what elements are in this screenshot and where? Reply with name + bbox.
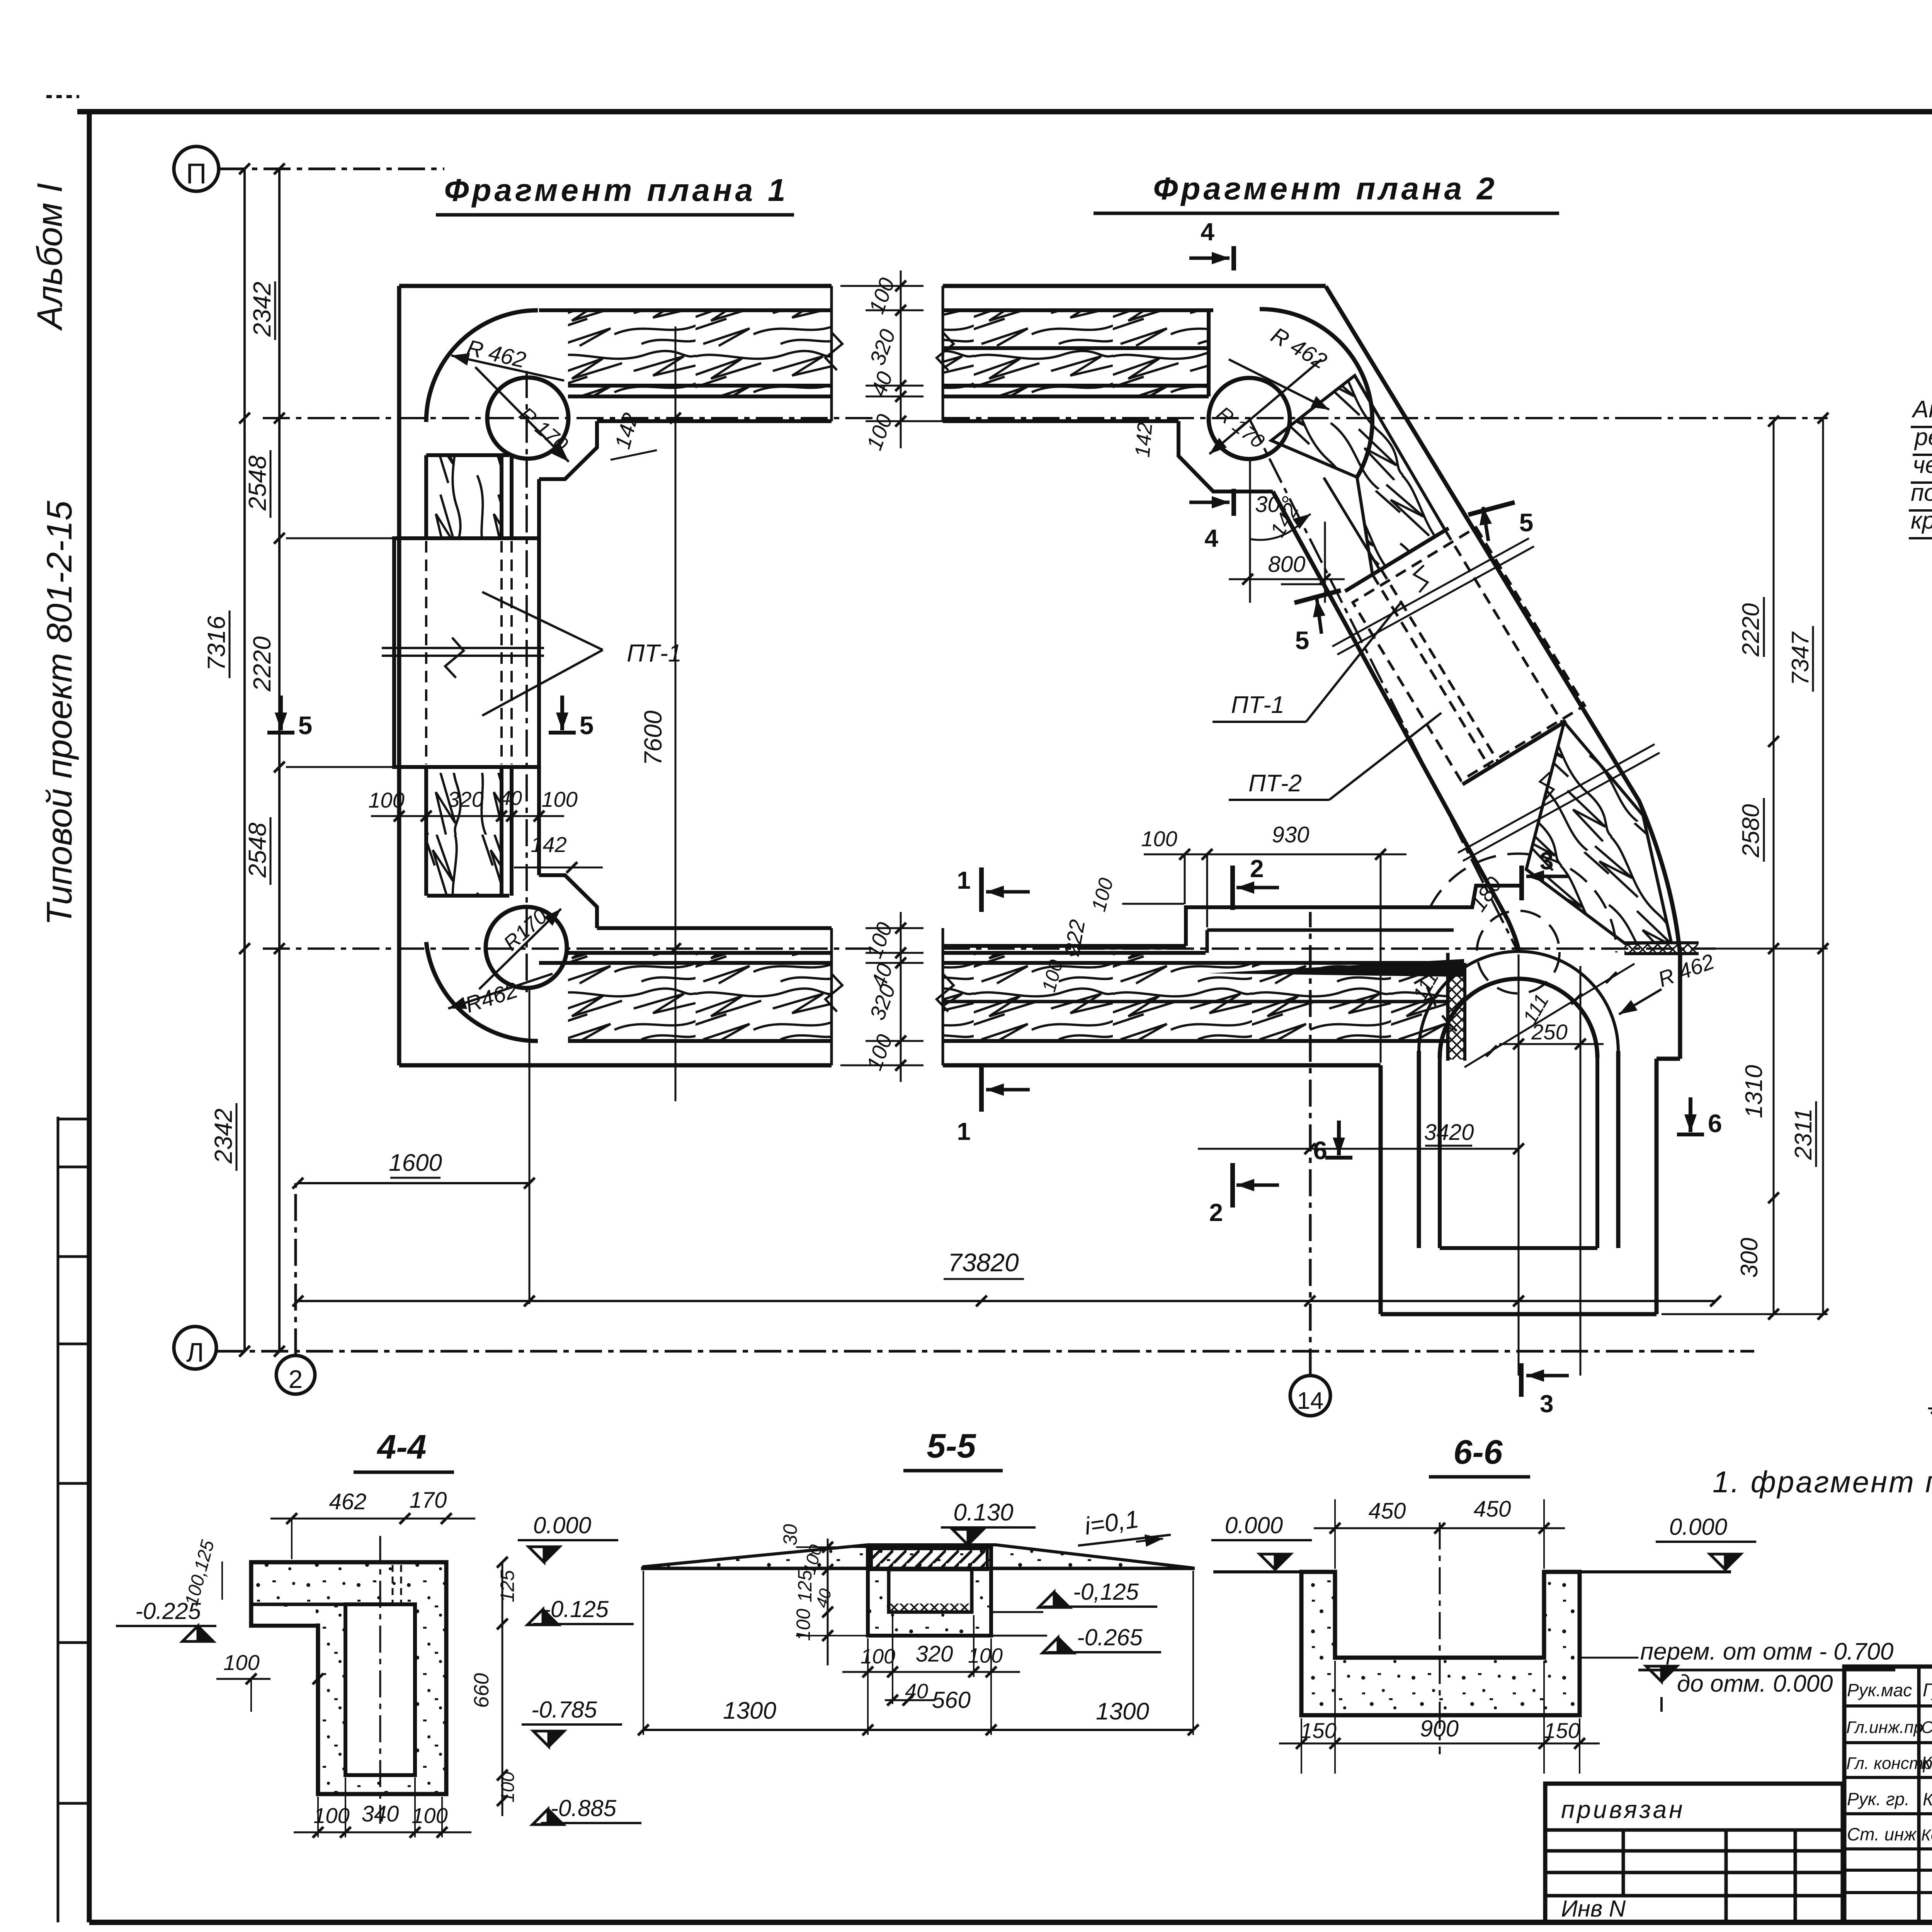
fragment1 left channel inner wall line lower bbox=[537, 767, 541, 875]
svg-text:800: 800 bbox=[1268, 552, 1306, 577]
svg-text:462: 462 bbox=[329, 1489, 367, 1514]
fragment1 bottom channel end closure bbox=[830, 928, 833, 1065]
svg-text:150: 150 bbox=[1544, 1718, 1580, 1743]
svg-text:2342: 2342 bbox=[209, 1109, 237, 1164]
svg-text:5: 5 bbox=[1519, 508, 1534, 537]
fragment2 bottom channel hatch band bbox=[943, 964, 1448, 1040]
svg-text:ревянные пробки 60х100: ревянные пробки 60х100 bbox=[1914, 424, 1932, 451]
extension line 800 right bbox=[1324, 522, 1326, 603]
svg-text:0.000: 0.000 bbox=[1669, 1514, 1727, 1540]
svg-text:100: 100 bbox=[223, 1650, 259, 1675]
fragment1 left channel inner wall line upper bbox=[537, 479, 541, 538]
svg-text:Гущин В.Н.: Гущин В.Н. bbox=[1923, 1680, 1932, 1701]
fragment2 top corner circle R170 bbox=[1209, 378, 1290, 459]
junction arch left inner leg bbox=[1438, 1058, 1442, 1248]
svg-text:125: 125 bbox=[794, 1570, 816, 1602]
fragment1 left channel centerline bbox=[526, 371, 528, 993]
right extension bottom bbox=[1662, 1313, 1828, 1315]
fragment1 left dim chain line outer bbox=[243, 169, 246, 1351]
svg-text:7316: 7316 bbox=[202, 616, 230, 671]
axis L line bbox=[216, 1350, 1754, 1353]
axis 14 line bbox=[1309, 912, 1312, 1376]
svg-text:привязан: привязан bbox=[1561, 1796, 1685, 1823]
svg-text:1300: 1300 bbox=[723, 1697, 776, 1724]
svg-text:1. фрагмент плана 1 и 2 зам: 1. фрагмент плана 1 и 2 замаркированы на… bbox=[1713, 1465, 1932, 1499]
section mark 1 lower bbox=[979, 1067, 984, 1112]
fragment1 bottom channel hatch band bbox=[568, 964, 832, 1040]
fragment2 diagonal channel outer edge bbox=[1326, 286, 1680, 1059]
svg-text:Корнеев С.Н: Корнеев С.Н bbox=[1921, 1753, 1932, 1773]
svg-text:150: 150 bbox=[1300, 1718, 1336, 1743]
fragment1 bottom channel break zigzag bbox=[825, 974, 842, 1012]
section mark 5 f2 right bbox=[1468, 502, 1515, 515]
section mark 2 upper bbox=[1230, 866, 1235, 910]
section mark 3 lower bbox=[1519, 1363, 1524, 1397]
svg-text:100: 100 bbox=[1141, 827, 1177, 851]
dim 73820 bbox=[298, 1300, 1716, 1302]
fragment1 bottom channel board strip bbox=[568, 951, 832, 955]
junction outer boundary right step bbox=[1656, 1057, 1680, 1061]
section 4-4 top dims bbox=[270, 1518, 475, 1520]
extension line corner center vertical bbox=[529, 989, 531, 1304]
axis marker L circle bbox=[174, 1327, 216, 1369]
svg-text:170: 170 bbox=[410, 1488, 447, 1513]
svg-text:0.000: 0.000 bbox=[1225, 1512, 1283, 1538]
svg-text:100: 100 bbox=[368, 788, 404, 812]
fragment1 top channel inner wall line bbox=[597, 419, 832, 423]
section mark 2 lower bbox=[1230, 1163, 1235, 1207]
section 5-5 extension lines bbox=[867, 1638, 869, 1735]
svg-text:Типовой проект 801-2-15: Типовой проект 801-2-15 bbox=[40, 500, 79, 925]
svg-text:Антисептированные де-: Антисептированные де- bbox=[1911, 396, 1932, 423]
section 4-4 board dashed bbox=[392, 1565, 394, 1603]
svg-text:по всей длине канала для: по всей длине канала для bbox=[1911, 480, 1932, 506]
svg-text:Л: Л bbox=[186, 1337, 204, 1367]
svg-text:Стуканова З.Г.: Стуканова З.Г. bbox=[1921, 1718, 1932, 1737]
svg-text:100: 100 bbox=[541, 787, 577, 811]
fragment1 top corner R170 dimension arrow bbox=[475, 367, 569, 462]
svg-text:660: 660 bbox=[470, 1673, 493, 1708]
section 4-4 body bbox=[251, 1562, 446, 1794]
svg-text:Гл. констр: Гл. констр bbox=[1846, 1754, 1932, 1773]
fragment2 bottom channel inner step second line bbox=[1207, 929, 1454, 932]
junction arch right outer leg bbox=[1616, 1051, 1621, 1248]
fragment1 extension line PT1 bottom bbox=[286, 766, 394, 768]
junction arch bottom inner line bbox=[1440, 1246, 1597, 1250]
svg-text:142: 142 bbox=[531, 832, 566, 857]
svg-text:через 1000мм заложить: через 1000мм заложить bbox=[1913, 452, 1932, 478]
right chain A line bbox=[1773, 421, 1775, 1314]
fragment2 diagonal plate edge line lower bbox=[1463, 721, 1566, 784]
fragment1 top channel outer wall line bbox=[399, 284, 832, 288]
fragment1 PT-1 slab dashed lines bbox=[425, 541, 427, 764]
section mark 4 lower bbox=[1231, 489, 1236, 516]
drawing frame top border bbox=[77, 109, 1932, 114]
section mark 1 upper bbox=[979, 867, 984, 912]
fragment1 top corner R462 dimension arrow bbox=[451, 355, 564, 381]
svg-text:100: 100 bbox=[313, 1803, 349, 1828]
svg-text:6: 6 bbox=[1708, 1109, 1722, 1138]
svg-text:ПТ-1: ПТ-1 bbox=[1231, 692, 1284, 718]
right chain B line bbox=[1822, 418, 1824, 1314]
fragment2 diagonal break pair upper bbox=[1332, 538, 1529, 646]
svg-text:450: 450 bbox=[1474, 1497, 1511, 1522]
fragment1 left dim chain line inner bbox=[278, 169, 281, 1351]
svg-text:250: 250 bbox=[1531, 1020, 1567, 1044]
svg-text:Альбом I: Альбом I bbox=[30, 183, 70, 331]
fragment1 left outer wall line bbox=[397, 286, 401, 1065]
privyazan table column lines bbox=[1622, 1830, 1625, 1896]
svg-text:14: 14 bbox=[1297, 1388, 1324, 1414]
svg-text:-0.785: -0.785 bbox=[531, 1697, 597, 1723]
fragment1 bottom channel centerline bbox=[263, 947, 875, 950]
fragment2 top channel hatch band bbox=[943, 311, 1209, 386]
section 4-4 cavity bbox=[345, 1604, 415, 1775]
fragment2 top channel outer wall line bbox=[943, 284, 1326, 288]
extension line 250 right bbox=[1580, 966, 1582, 1376]
svg-text:142: 142 bbox=[1131, 422, 1157, 458]
right extension top centerline bbox=[1634, 417, 1828, 419]
junction perpendicular dim line 111 bbox=[1464, 964, 1634, 1067]
fragment1 left channel upper hatch bbox=[427, 456, 502, 537]
svg-text:0.130: 0.130 bbox=[953, 1499, 1013, 1526]
fragment2 top channel inner wall line bbox=[943, 419, 1179, 423]
fragment2 diagonal inner edge curve to arch bbox=[1508, 920, 1519, 951]
svg-text:6-6: 6-6 bbox=[1453, 1433, 1503, 1471]
fragment1 PT-1 leader bbox=[482, 592, 603, 650]
left stamp column line bbox=[57, 1117, 60, 1922]
svg-text:-0,125: -0,125 bbox=[1073, 1579, 1139, 1605]
svg-text:2548: 2548 bbox=[243, 822, 271, 878]
fragment1 bottom channel inner wall line bbox=[597, 926, 832, 930]
fragment2 bottom channel centerline bbox=[943, 947, 1422, 950]
section mark 3 upper bbox=[1519, 866, 1524, 900]
fragment1 bottom left corner circle R170 bbox=[486, 907, 567, 988]
svg-text:7600: 7600 bbox=[639, 710, 667, 765]
fragment1 chain ticks inner bbox=[274, 533, 285, 544]
svg-text:крепления облицов. досок: крепления облицов. досок bbox=[1911, 507, 1932, 534]
svg-text:2342: 2342 bbox=[248, 282, 276, 337]
svg-text:7347: 7347 bbox=[1787, 631, 1814, 685]
fragment2 top channel centerline bbox=[943, 417, 1634, 419]
privyazan table header row line bbox=[1545, 1828, 1843, 1832]
section mark 5 right bbox=[560, 696, 564, 730]
fragment2 bottom channel end crosshatch strip bbox=[1448, 963, 1465, 1060]
section mark 4 upper bbox=[1231, 246, 1236, 270]
fragment2 diagonal dashed wall lines bbox=[1445, 530, 1564, 725]
svg-text:30: 30 bbox=[779, 1524, 801, 1546]
svg-text:5: 5 bbox=[580, 711, 594, 740]
fragment1 bottom corner R462 dimension arrow bbox=[448, 974, 553, 1009]
svg-text:Фрагмент плана 2: Фрагмент плана 2 bbox=[1153, 171, 1497, 206]
svg-text:до отм. 0.000: до отм. 0.000 bbox=[1677, 1670, 1833, 1697]
signature table row lines bbox=[1844, 1704, 1932, 1708]
fragment2 diagonal channel centerline bbox=[1249, 418, 1518, 952]
junction arch right inner leg bbox=[1595, 1058, 1599, 1248]
fragment1 top channel centerline bbox=[263, 417, 875, 419]
extension line arch center vertical bbox=[1518, 954, 1520, 1376]
fragment1 top corner step bbox=[539, 421, 597, 479]
section 5-5 floor strip bbox=[889, 1604, 971, 1612]
svg-text:1: 1 bbox=[957, 866, 971, 894]
label R462 junction bbox=[1619, 989, 1662, 1014]
drawing frame left border bbox=[87, 112, 92, 1922]
fragment1 left channel dim line bbox=[371, 815, 564, 817]
section 5-5 bottom dims bbox=[842, 1671, 1020, 1673]
svg-text:4: 4 bbox=[1204, 524, 1218, 552]
svg-text:560: 560 bbox=[932, 1687, 971, 1713]
svg-text:4: 4 bbox=[1201, 218, 1214, 246]
fragment2 bottom channel break zigzag bbox=[937, 974, 954, 1012]
dim 1600 bbox=[298, 1182, 529, 1184]
junction dashed circle small bbox=[1477, 911, 1560, 993]
svg-text:340: 340 bbox=[362, 1801, 399, 1827]
svg-text:П: П bbox=[186, 158, 206, 190]
svg-text:2220: 2220 bbox=[248, 636, 276, 692]
axis P line bbox=[219, 168, 444, 170]
svg-text:320: 320 bbox=[447, 787, 483, 811]
section 5-5 cavity bbox=[889, 1570, 972, 1612]
svg-text:1310: 1310 bbox=[1741, 1065, 1767, 1118]
svg-text:Рук.мас: Рук.мас bbox=[1847, 1680, 1912, 1700]
section 4-4 bottom dims bbox=[294, 1832, 471, 1833]
fragment2 diagonal board line A bbox=[1324, 478, 1380, 570]
svg-text:Костромин А.П: Костромин А.П bbox=[1921, 1826, 1932, 1844]
svg-text:900: 900 bbox=[1420, 1716, 1459, 1742]
fragment1 left channel lower hatch bbox=[427, 773, 502, 894]
axis 2 line bbox=[294, 1183, 297, 1355]
fragment1 bottom channel outer wall line bbox=[399, 1063, 832, 1068]
section 3-3 bottom dims bbox=[1928, 1408, 1932, 1410]
section 4-4 centerline bbox=[379, 1536, 381, 1824]
svg-text:2: 2 bbox=[1250, 855, 1264, 883]
fragment1 top left inner corner arc R462 bbox=[426, 310, 538, 422]
privyazan table row lines bbox=[1545, 1849, 1843, 1853]
privyazan table outer box bbox=[1545, 1784, 1843, 1922]
junction arch inner arc bbox=[1440, 979, 1597, 1058]
signature table column lines bbox=[1917, 1667, 1921, 1922]
fragment2 bottom channel black wedge bbox=[1208, 959, 1464, 977]
junction outer boundary left vertical bbox=[1379, 1065, 1383, 1314]
fragment2 bottom channel board strip bbox=[943, 951, 1206, 955]
svg-text:1600: 1600 bbox=[389, 1150, 442, 1176]
section 6-6 ground lines bbox=[1213, 1570, 1301, 1573]
svg-text:125: 125 bbox=[497, 1570, 518, 1602]
svg-text:5: 5 bbox=[1295, 626, 1310, 655]
svg-text:2548: 2548 bbox=[243, 455, 271, 511]
fragment2 top channel start closure bbox=[942, 286, 944, 421]
fragment1 top channel board strip bbox=[568, 395, 832, 398]
svg-text:40: 40 bbox=[905, 1680, 928, 1703]
svg-text:ПТ-2: ПТ-2 bbox=[1248, 770, 1302, 797]
bottom middle dim chain line bbox=[900, 912, 902, 1082]
junction dashed circle large bbox=[1430, 854, 1616, 952]
junction outer boundary bottom bbox=[1381, 1312, 1656, 1316]
fragment2 top corner arc R462 bbox=[1260, 309, 1372, 477]
svg-text:Инв N: Инв N bbox=[1561, 1896, 1626, 1922]
svg-text:Костина И.С: Костина И.С bbox=[1923, 1789, 1932, 1809]
svg-text:5-5: 5-5 bbox=[927, 1427, 976, 1465]
left stamp column ticks bbox=[58, 1118, 89, 1121]
binding marks top left bbox=[46, 95, 79, 98]
fragment2 diagonal PT-2 plate dashed outline bbox=[1353, 527, 1585, 781]
extension line circle center f2 bbox=[1249, 460, 1251, 603]
fragment2 diagonal hatch segment A bbox=[1271, 376, 1445, 575]
fragment1 top channel hatch band bbox=[568, 311, 832, 386]
drawing frame bottom border bbox=[89, 1920, 1932, 1925]
fragment1 PT-1 slab break lines bbox=[382, 647, 544, 649]
svg-text:2311: 2311 bbox=[1790, 1108, 1817, 1160]
svg-text:73820: 73820 bbox=[948, 1248, 1019, 1277]
svg-text:300: 300 bbox=[1736, 1238, 1763, 1277]
svg-text:1: 1 bbox=[957, 1117, 971, 1145]
fragment1 top channel end closure bbox=[830, 286, 833, 421]
fragment2 top corner R170 arrow bbox=[1209, 359, 1321, 454]
fragment2 top corner R462 arrow bbox=[1229, 359, 1329, 410]
svg-text:2220: 2220 bbox=[1738, 603, 1764, 657]
svg-text:Фрагмент плана 1: Фрагмент плана 1 bbox=[444, 173, 788, 208]
fragment2 diagonal hatch segment B bbox=[1526, 722, 1671, 944]
junction outer boundary right vertical bbox=[1655, 1059, 1659, 1314]
dim 7600 line bbox=[675, 327, 677, 1101]
fragment1 extension line PT1 top bbox=[286, 537, 394, 539]
fragment1 bottom left inner corner arc R462 bbox=[426, 942, 538, 1041]
svg-text:40: 40 bbox=[500, 787, 522, 810]
section 6-6 trough body bbox=[1301, 1572, 1580, 1715]
fragment1 bottom corner R170 dimension arrow bbox=[479, 909, 561, 989]
section 6-6 bottom dims bbox=[1279, 1743, 1600, 1745]
dim 3420 bbox=[1198, 1148, 1519, 1150]
svg-text:2: 2 bbox=[289, 1365, 303, 1393]
fragment1 top channel break zigzag bbox=[825, 332, 842, 370]
svg-text:0.000: 0.000 bbox=[533, 1512, 591, 1538]
svg-text:3: 3 bbox=[1540, 1390, 1554, 1418]
fragment2 corner hatch closure bbox=[1207, 310, 1211, 396]
svg-text:3: 3 bbox=[1540, 847, 1554, 875]
svg-text:Ст. инж: Ст. инж bbox=[1847, 1824, 1917, 1844]
right extension junction centerline bbox=[1716, 948, 1828, 950]
svg-text:-0.885: -0.885 bbox=[551, 1795, 617, 1821]
svg-text:2580: 2580 bbox=[1738, 804, 1764, 858]
junction centerline horizontal bbox=[1422, 947, 1716, 950]
svg-text:320: 320 bbox=[916, 1641, 953, 1667]
section 6-6 top dims bbox=[1314, 1527, 1565, 1529]
fragment2 bottom channel inner boundary lower bbox=[943, 944, 1186, 948]
svg-text:4-4: 4-4 bbox=[376, 1428, 426, 1466]
section 5-5 channel box bbox=[868, 1547, 991, 1636]
fragment2 top channel break zigzag bbox=[937, 332, 954, 370]
extension 100 930 bbox=[1184, 854, 1186, 904]
fragment1 PT-1 slab rectangle bbox=[394, 538, 539, 767]
svg-text:Рук. гр.: Рук. гр. bbox=[1847, 1789, 1910, 1809]
section mark 5 f2 left bbox=[1294, 590, 1341, 603]
svg-text:6: 6 bbox=[1313, 1136, 1327, 1165]
svg-text:Гл.инж.пр: Гл.инж.пр bbox=[1846, 1718, 1923, 1737]
fragment2 diagonal plate edge line upper bbox=[1345, 528, 1449, 591]
top middle dim chain line bbox=[900, 270, 902, 448]
section 5-5 hatched slab bbox=[871, 1549, 987, 1570]
fragment2 diagonal break pair lower bbox=[1458, 744, 1655, 853]
junction arch left outer leg bbox=[1417, 1051, 1421, 1248]
svg-text:5: 5 bbox=[298, 711, 313, 740]
section 4-4 left notch bbox=[253, 1607, 316, 1624]
junction arch outer arc bbox=[1419, 951, 1618, 1051]
svg-text:3420: 3420 bbox=[1424, 1120, 1474, 1145]
section mark 5 left bbox=[279, 696, 283, 730]
axis marker P circle bbox=[174, 146, 219, 191]
svg-text:930: 930 bbox=[1272, 822, 1310, 847]
axis marker 2 circle bbox=[276, 1355, 315, 1394]
bottom middle dim extension lines bbox=[866, 927, 923, 929]
fragment2 top channel board strip bbox=[943, 395, 1209, 398]
section 5-5 mound bbox=[642, 1545, 1193, 1568]
signature table outer bbox=[1844, 1667, 1932, 1922]
fragment1 top left corner circle R170 bbox=[487, 378, 568, 459]
fragment2 top corner step bbox=[1179, 421, 1273, 492]
svg-text:100: 100 bbox=[861, 1645, 895, 1668]
dim 100-930 line bbox=[1144, 854, 1406, 855]
junction crosshatch strip right bbox=[1624, 944, 1698, 954]
section 6-6 centerline bbox=[1439, 1522, 1441, 1754]
fragment1 bottom corner step bbox=[539, 875, 597, 928]
top middle dim extension lines bbox=[840, 285, 923, 287]
axis marker 14 circle bbox=[1290, 1376, 1330, 1416]
section 5-5 ground line bbox=[641, 1567, 1195, 1570]
svg-text:1300: 1300 bbox=[1096, 1698, 1149, 1725]
svg-text:450: 450 bbox=[1369, 1498, 1406, 1524]
svg-text:2: 2 bbox=[1209, 1199, 1223, 1226]
svg-text:100: 100 bbox=[498, 1772, 518, 1803]
fragment2 bottom channel start closure bbox=[942, 928, 944, 1065]
svg-text:перем. от отм - 0.700: перем. от отм - 0.700 bbox=[1640, 1638, 1893, 1665]
fragment2 bottom channel outer wall line bbox=[943, 1063, 1381, 1068]
fragment2 bottom channel inner step bbox=[1186, 886, 1522, 946]
fragment1 top corner block bottom line bbox=[426, 453, 509, 457]
svg-text:ПТ-1: ПТ-1 bbox=[627, 639, 682, 667]
svg-text:-0.265: -0.265 bbox=[1077, 1624, 1143, 1650]
fragment2 diagonal channel inner edge bbox=[1273, 492, 1508, 920]
